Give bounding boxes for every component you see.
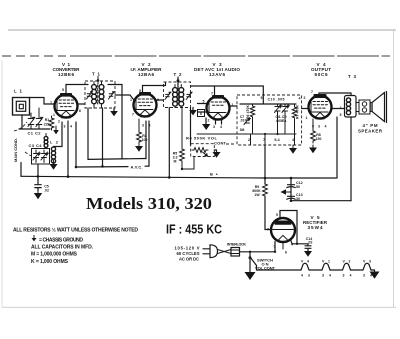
wire V2 plate to T2: [143, 83, 166, 94]
heater string: [257, 260, 380, 279]
transformer T3 (output): [340, 74, 357, 117]
wire L1 center down: [21, 115, 23, 129]
wire speaker return down: [350, 117, 352, 201]
svg-text:ALL CAPACITORS IN MFD.: ALL CAPACITORS IN MFD.: [31, 245, 94, 251]
svg-text:R4 500K VOL: R4 500K VOL: [186, 136, 218, 141]
resistor R7 470K: [292, 104, 299, 133]
wire V2 grid return: [148, 121, 150, 166]
svg-text:105-120 V: 105-120 V: [175, 246, 200, 251]
speaker 4in PM: [358, 92, 387, 134]
svg-text:7: 7: [311, 90, 313, 94]
svg-text:3: 3: [343, 274, 345, 278]
svg-text:M: M: [174, 160, 177, 164]
svg-text:12BE6: 12BE6: [58, 72, 74, 77]
tube V3 det avc 1st audio 12AV6: [194, 62, 240, 129]
notes block: [13, 227, 138, 265]
svg-text:3: 3: [308, 274, 310, 278]
resistor R1 22K: [44, 116, 59, 134]
svg-text:.005EA: .005EA: [276, 119, 288, 123]
svg-text:3M: 3M: [240, 128, 245, 132]
svg-text:= CHASSIS GROUND: = CHASSIS GROUND: [39, 237, 83, 243]
B+ bus: [21, 172, 337, 180]
detector network top rail: [240, 103, 296, 105]
svg-text:SPEAKER: SPEAKER: [358, 129, 383, 134]
svg-text:4: 4: [329, 274, 331, 278]
wire V4 plate to T3: [319, 93, 351, 96]
resistor R5 3.3M: [173, 108, 194, 171]
detector dashed box: [237, 95, 302, 145]
svg-text:3: 3: [322, 274, 324, 278]
padder box C3 C4: [25, 143, 50, 164]
wire interlock to V5: [240, 242, 276, 252]
svg-text:.02: .02: [44, 189, 49, 193]
capacitor C5 .02: [34, 185, 49, 200]
svg-text:6: 6: [79, 109, 81, 113]
resistor R2 100: [135, 119, 147, 152]
wire T3 primary bottom down to B+: [336, 117, 338, 178]
ground below L2: [50, 164, 58, 170]
antenna loop L1: [13, 89, 30, 116]
svg-text:50C5: 50C5: [315, 72, 328, 77]
interlock connector: [227, 242, 246, 256]
svg-text:35W4: 35W4: [308, 225, 323, 230]
V3 diode ground: [198, 104, 211, 131]
svg-text:4: 4: [301, 274, 303, 278]
svg-text:M = 1,000,000 OHMS: M = 1,000,000 OHMS: [31, 252, 78, 258]
svg-text:2: 2: [58, 120, 60, 124]
V3 pins down: [216, 120, 222, 124]
svg-text:C1 C2: C1 C2: [28, 131, 42, 136]
svg-text:.01: .01: [240, 119, 245, 123]
svg-text:2: 2: [248, 138, 250, 142]
svg-text:5: 5: [276, 213, 278, 217]
wire box to V4 grid: [302, 108, 309, 110]
wire V2 pin down to bus: [145, 121, 147, 159]
svg-text:1: 1: [53, 113, 55, 117]
wire V1 pin4 down to B+ bus: [67, 121, 69, 177]
svg-text:2: 2: [208, 119, 210, 123]
tube V5 rectifier 35W4: [267, 213, 328, 255]
svg-text:IF : 455 KC: IF : 455 KC: [166, 223, 222, 237]
svg-text:R6 470K: R6 470K: [246, 104, 250, 119]
svg-text:5: 5: [261, 96, 263, 100]
svg-text:5: 5: [62, 88, 64, 92]
tube V4 output 50C5: [304, 62, 333, 129]
wire V1 plate to T1: [66, 85, 88, 95]
svg-text:4: 4: [299, 97, 301, 101]
svg-text:7: 7: [211, 92, 213, 96]
wire T2 primary bottom to B+: [168, 108, 170, 178]
wire T2 secondary to volume pot: [190, 108, 192, 146]
caps C8 C9: [275, 104, 290, 134]
resistor R9 filter: [252, 145, 271, 230]
svg-text:3: 3: [318, 125, 320, 129]
svg-text:4: 4: [70, 125, 72, 129]
speaker voice coil: [356, 100, 370, 114]
wire T1 secondary bottom to AVC bus: [102, 108, 104, 166]
wire L1 to V1 grid: [30, 98, 55, 105]
svg-text:2: 2: [304, 96, 306, 100]
svg-text:K = 1,000 OHMS: K = 1,000 OHMS: [31, 259, 69, 265]
svg-text:60 CYCLES: 60 CYCLES: [177, 251, 200, 256]
tube V2 IF amplifier 12BA6: [130, 62, 163, 128]
svg-text:AC OR DC: AC OR DC: [179, 257, 199, 262]
wire box to C5: [37, 164, 39, 184]
resistor R8 150: [309, 119, 321, 153]
ground below T2: [192, 108, 194, 111]
power plug: [175, 245, 218, 262]
svg-text:4: 4: [350, 274, 352, 278]
ground below T1: [113, 108, 115, 111]
oscillator coil L2 primary: [44, 134, 48, 149]
schematic top edge dashed rule: [2, 55, 66, 57]
svg-text:150: 150: [316, 137, 322, 141]
tube V1 converter 12BE6: [50, 62, 85, 129]
svg-text:6: 6: [285, 251, 287, 255]
svg-text:50: 50: [296, 185, 300, 189]
svg-text:4: 4: [325, 125, 327, 129]
svg-text:1W: 1W: [254, 193, 260, 197]
stubs from cathode rail to box bottom: [251, 134, 295, 145]
svg-text:C3 C4: C3 C4: [29, 143, 43, 148]
svg-text:C10 .005: C10 .005: [268, 98, 285, 102]
svg-text:1: 1: [232, 103, 234, 107]
svg-text:CONT: CONT: [214, 141, 227, 146]
svg-text:6: 6: [157, 98, 159, 102]
svg-text:3: 3: [142, 124, 144, 128]
line cord: [218, 250, 232, 254]
svg-text:INTERLOCK: INTERLOCK: [227, 242, 246, 246]
wire T1 primary bottom down to bus: [87, 108, 89, 159]
V5 plate loop: [280, 211, 297, 244]
svg-text:5: 5: [340, 113, 342, 117]
ground under box: [292, 145, 294, 148]
svg-text:R1: R1: [45, 118, 50, 122]
filter caps C12 C13: [281, 178, 303, 201]
wire V5 pin4 to C14: [291, 240, 309, 244]
tuning gang C1 C2: [14, 108, 50, 136]
volume pot R4 500K: [186, 136, 236, 158]
AVC bus: [76, 164, 149, 169]
oscillator coil L2: [50, 122, 63, 170]
ground bus lower: [291, 200, 351, 202]
transformer T1 (1st IF): [85, 72, 118, 117]
wire V1 pin2 down to AVC bus: [75, 122, 77, 167]
grid leak parts left of box: [240, 115, 251, 132]
svg-text:7: 7: [132, 113, 134, 117]
cathode bus: [88, 158, 146, 161]
svg-text:3: 3: [363, 274, 365, 278]
ground end of string: [371, 270, 375, 272]
svg-text:4: 4: [220, 125, 222, 129]
V3 cathode line: [197, 133, 296, 135]
svg-text:4" PM: 4" PM: [363, 123, 378, 128]
svg-text:3: 3: [213, 125, 215, 129]
svg-text:4: 4: [292, 138, 294, 142]
svg-text:Models 310, 320: Models 310, 320: [86, 194, 212, 213]
capacitor C14 .02: [304, 237, 312, 257]
wire T1 to V2 grid: [115, 95, 134, 100]
switch on vol cont: [245, 252, 276, 280]
svg-text:1: 1: [306, 116, 308, 120]
svg-text:ALL RESISTORS ½ WATT UNLESS OT: ALL RESISTORS ½ WATT UNLESS OTHERWISE NO…: [13, 227, 138, 234]
svg-text:22K: 22K: [44, 123, 51, 127]
svg-text:5: 5: [139, 89, 141, 93]
svg-text:A.V.C.: A.V.C.: [131, 164, 143, 169]
svg-text:1: 1: [130, 98, 132, 102]
svg-text:3: 3: [64, 125, 66, 129]
transformer T2 (2nd IF): [164, 72, 197, 115]
resistor R6 470K: [246, 104, 255, 133]
svg-text:5-4: 5-4: [274, 138, 279, 142]
svg-text:MAIN COND.: MAIN COND.: [13, 138, 18, 162]
gang frame wire down: [20, 163, 22, 177]
svg-text:12BA6: 12BA6: [138, 72, 154, 77]
wire T2 to V3 input: [191, 86, 264, 104]
wire T1 to screen dropper vertical: [108, 85, 122, 159]
svg-text:12AV6: 12AV6: [209, 72, 225, 77]
svg-text:R7 470K: R7 470K: [296, 104, 300, 119]
